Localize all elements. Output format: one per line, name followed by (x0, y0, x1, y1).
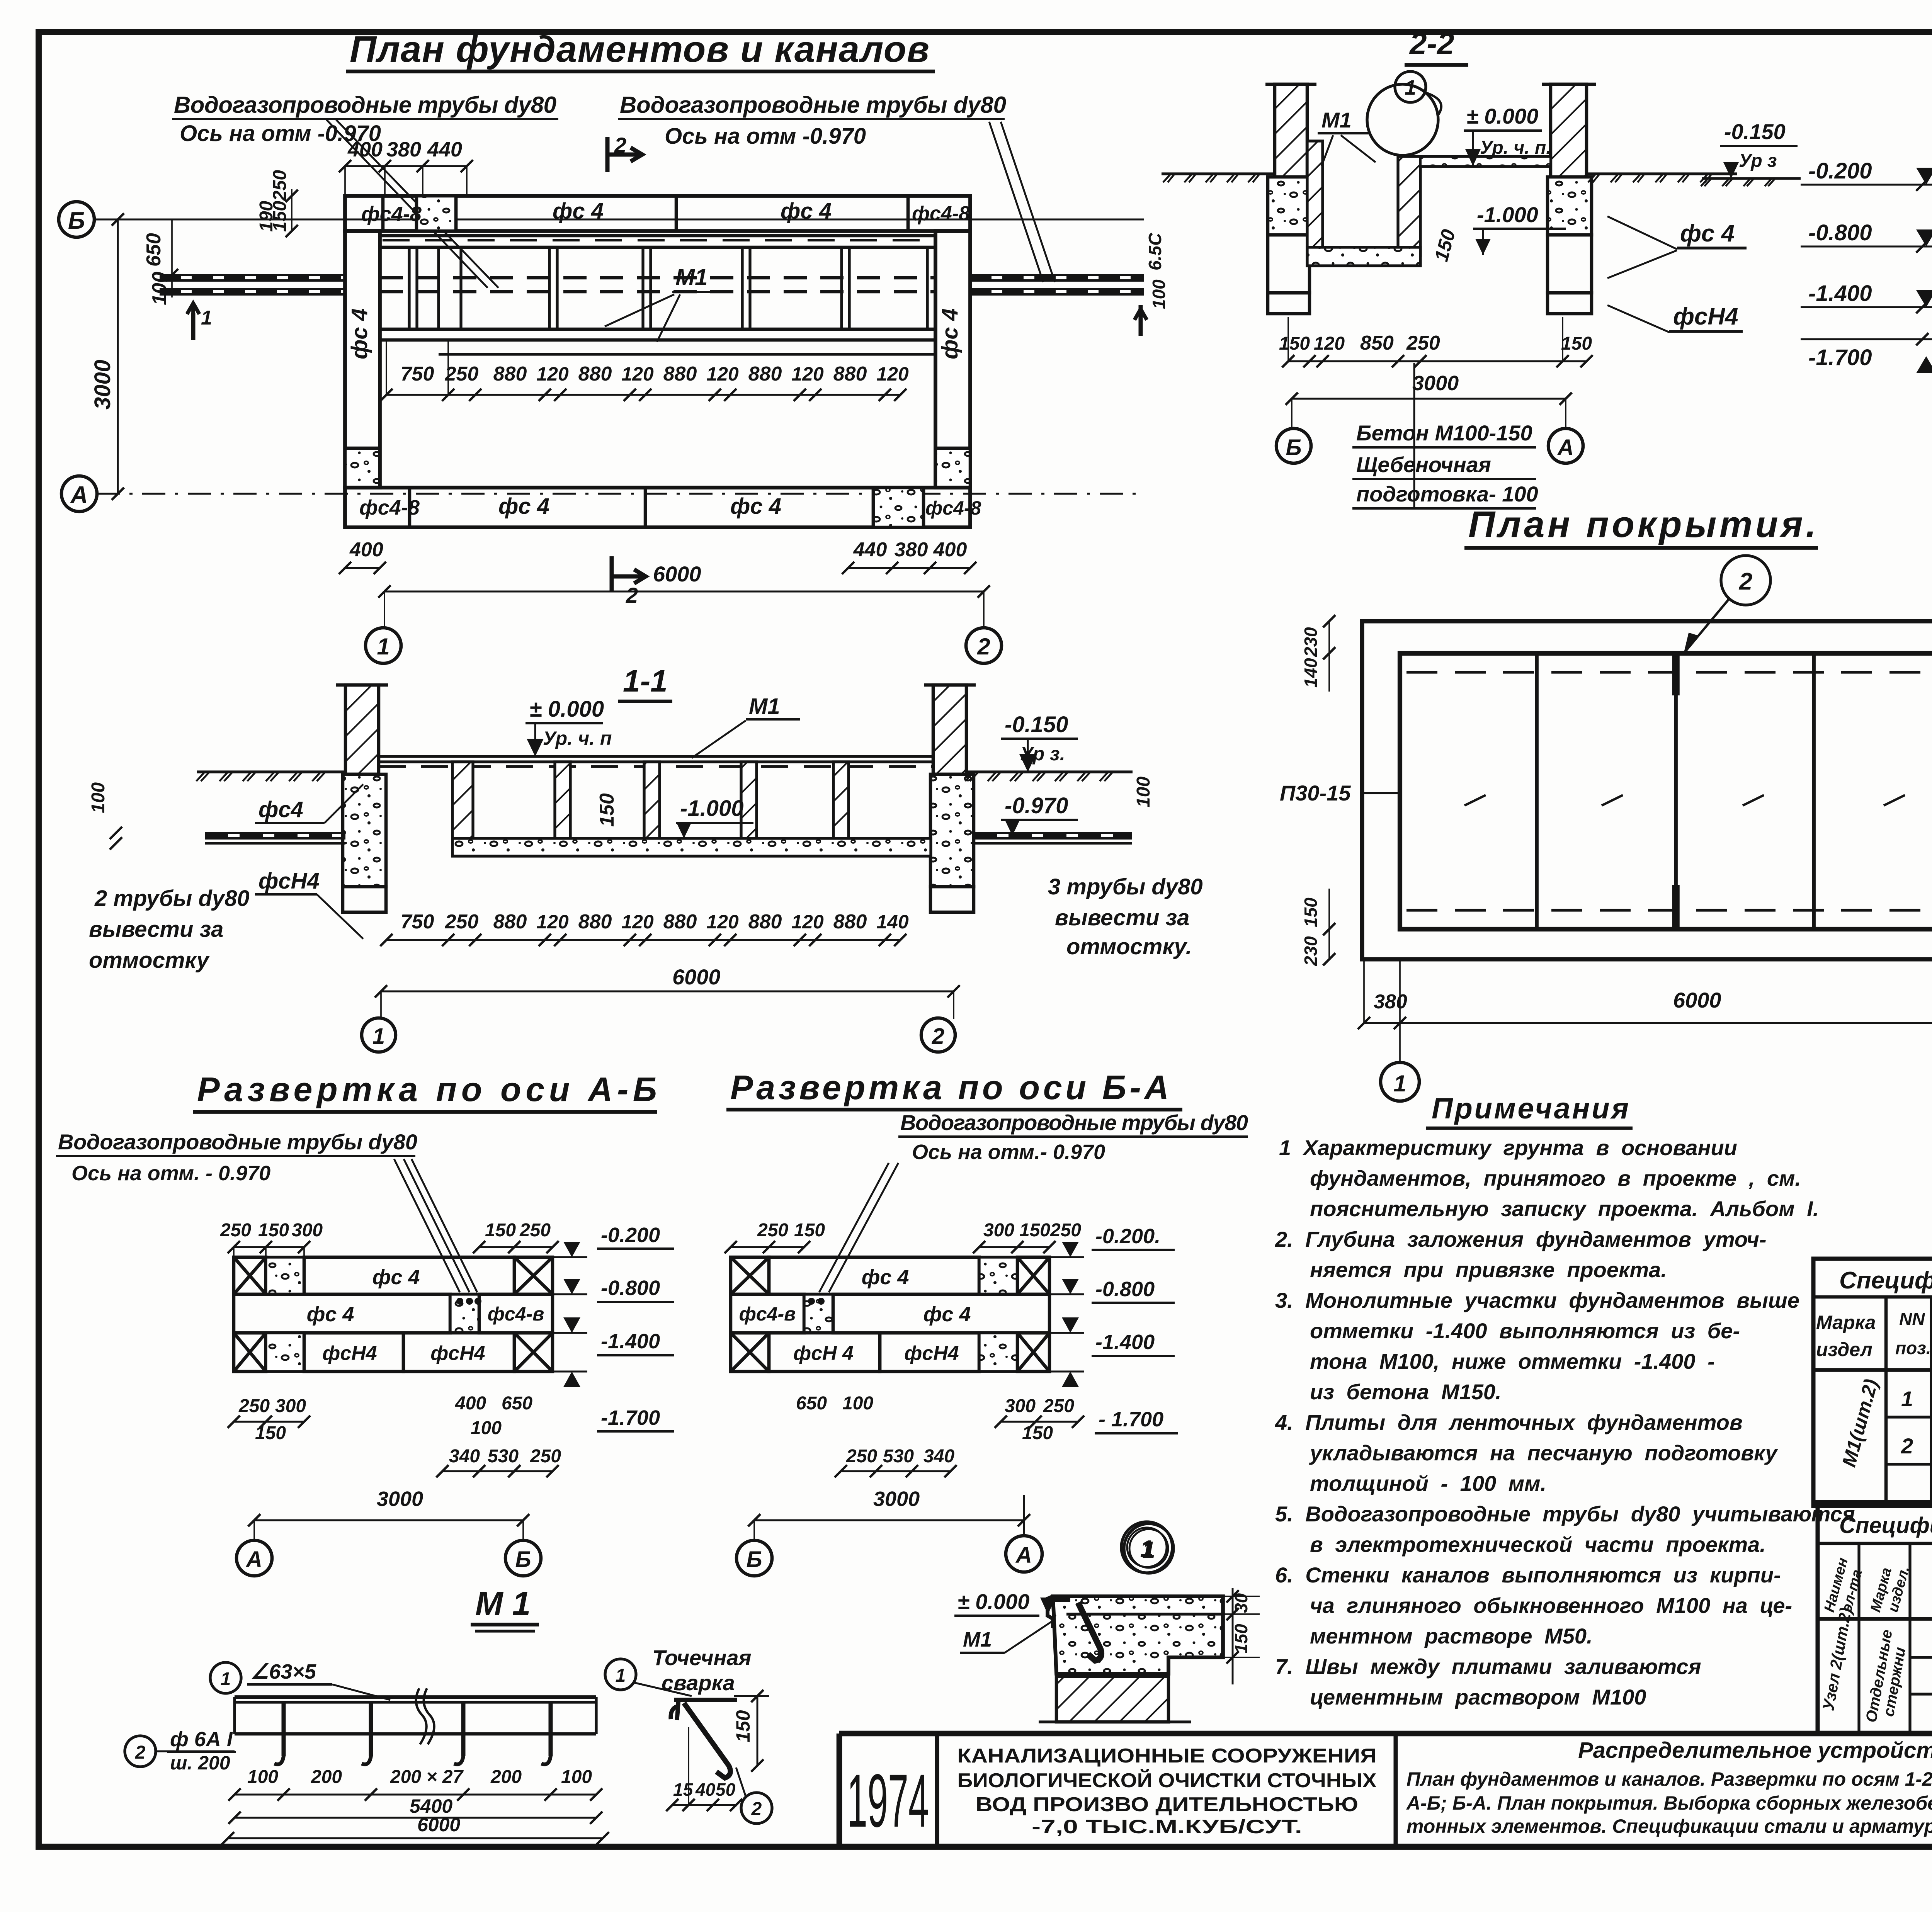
node1: dims 30 150 (1232, 1588, 1234, 1684)
svg-text:100: 100 (88, 782, 109, 813)
svg-text:100: 100 (561, 1767, 592, 1787)
svg-text:50: 50 (716, 1779, 736, 1800)
node1: node circle 1 (1121, 1522, 1172, 1573)
svg-text:-7,0 ТЫС.М.КУБ/СУТ.: -7,0 ТЫС.М.КУБ/СУТ. (1032, 1816, 1302, 1837)
svg-text:150: 150 (1279, 333, 1310, 354)
svg-text:880: 880 (748, 911, 782, 933)
plan: pipes right segment (970, 274, 1144, 276)
svg-text:толщиной - 100 мм.: толщиной - 100 мм. (1310, 1471, 1546, 1496)
table armatura: header bottom (1818, 1617, 1932, 1621)
plan: left wall band (345, 231, 380, 488)
roof plan panel joints (1535, 653, 1539, 929)
svg-text:120: 120 (706, 911, 739, 933)
svg-text:фс 4: фс 4 (862, 1266, 909, 1289)
svg-text:2: 2 (977, 634, 990, 659)
svg-text:фс 4: фс 4 (1680, 220, 1735, 247)
axis circle A (B-A) (1006, 1536, 1042, 1572)
section mark 1 (left) (191, 313, 196, 340)
svg-text:фсН4: фсН4 (1673, 303, 1738, 330)
svg-text:Б: Б (68, 207, 85, 234)
M1 break squiggle (416, 1688, 434, 1744)
svg-text:± 0.000: ± 0.000 (957, 1589, 1029, 1614)
node1: rebar hook (1078, 1603, 1101, 1660)
svg-text:М1: М1 (963, 1628, 992, 1651)
svg-text:750: 750 (401, 363, 434, 385)
roof plan outer rect (1362, 621, 1932, 959)
svg-text:-1.700: -1.700 (1808, 345, 1872, 370)
svg-text:1: 1 (1901, 1387, 1913, 1411)
spot weld dim 150 (757, 1696, 759, 1766)
svg-text:-0.800: -0.800 (601, 1276, 660, 1300)
svg-text:750: 750 (401, 911, 434, 933)
axis circle B (B-A) (736, 1540, 772, 1576)
svg-text:тона М100, ниже отметки: тона М100, ниже отметки -1.400 - (1310, 1349, 1715, 1373)
svg-text:400: 400 (933, 539, 967, 561)
2-2 top slab (1420, 156, 1551, 167)
title block: cell borders (837, 1734, 842, 1847)
svg-text:400: 400 (349, 539, 383, 561)
svg-text:120: 120 (706, 363, 739, 385)
table armatura: outer box (1818, 1502, 1932, 1734)
svg-text:ча глиняного обыкновенного: ча глиняного обыкновенного М100 на це- (1310, 1593, 1792, 1618)
svg-text:650: 650 (796, 1393, 827, 1414)
svg-text:380: 380 (1374, 991, 1407, 1013)
elevation wall B-A (731, 1257, 769, 1294)
svg-text:фсН4: фсН4 (259, 868, 320, 894)
2-2 left pier blocks (1268, 177, 1310, 235)
svg-text:фс4-в: фс4-в (488, 1303, 544, 1325)
svg-text:6000: 6000 (417, 1814, 460, 1836)
svg-text:в электротехнической части: в электротехнической части проекта. (1310, 1532, 1766, 1557)
leaders to wall (A-B) (394, 1159, 460, 1292)
svg-text:Точечная: Точечная (652, 1645, 751, 1670)
svg-text:120: 120 (876, 363, 909, 385)
svg-text:880: 880 (578, 363, 612, 385)
svg-text:3000: 3000 (90, 360, 115, 410)
svg-text:М1: М1 (1321, 108, 1352, 132)
svg-text:Водогазопроводные трубы dy8: Водогазопроводные трубы dy80 (58, 1130, 417, 1154)
1-1 pipes (205, 832, 345, 834)
svg-text:Марка: Марка (1816, 1312, 1876, 1333)
table stal: row lines (1886, 1416, 1932, 1418)
svg-text:Щебеночная: Щебеночная (1356, 452, 1491, 477)
svg-text:880: 880 (833, 911, 867, 933)
svg-text:фс 4: фс 4 (937, 308, 963, 359)
svg-text:140: 140 (876, 911, 909, 933)
svg-text:пояснительную записку проект: пояснительную записку проекта. Альбом I. (1310, 1196, 1819, 1221)
svg-text:П30-15: П30-15 (1280, 781, 1351, 805)
svg-text:400: 400 (455, 1393, 486, 1414)
svg-text:2 трубы dy80: 2 трубы dy80 (94, 886, 250, 911)
svg-text:Водогазопроводные трубы dy80: Водогазопроводные трубы dy80 (174, 92, 556, 118)
svg-text:880: 880 (493, 911, 527, 933)
svg-text:3000: 3000 (873, 1487, 920, 1511)
svg-text:440: 440 (427, 138, 462, 161)
svg-text:± 0.000: ± 0.000 (529, 697, 604, 722)
svg-text:150: 150 (1022, 1423, 1053, 1443)
svg-text:Ур з: Ур з (1739, 151, 1777, 171)
svg-text:6.5С: 6.5С (1145, 233, 1165, 270)
svg-text:6. Стенки каналов выполняю: 6. Стенки каналов выполняются из кирпи- (1275, 1563, 1781, 1587)
svg-text:150: 150 (794, 1220, 825, 1241)
svg-text:250: 250 (270, 170, 290, 201)
svg-text:фс4-в: фс4-в (739, 1303, 796, 1325)
table armatura: header columns (1857, 1543, 1860, 1734)
svg-text:фундаментов, принятого в про: фундаментов, принятого в проекте , см. (1310, 1166, 1801, 1190)
plan: top wall band (345, 196, 970, 231)
2-2 ground left (1162, 172, 1275, 175)
svg-text:40: 40 (695, 1779, 716, 1800)
svg-text:издел: издел (1816, 1339, 1872, 1360)
svg-text:фсН4: фсН4 (430, 1342, 485, 1365)
svg-text:340: 340 (923, 1446, 954, 1467)
svg-text:1: 1 (372, 1024, 385, 1049)
svg-text:150: 150 (258, 1220, 289, 1241)
svg-text:фсН4: фсН4 (322, 1342, 377, 1365)
svg-text:190: 190 (256, 201, 277, 232)
svg-text:6000: 6000 (672, 965, 721, 989)
svg-text:300: 300 (275, 1396, 306, 1416)
plan: right bottom block speckled (935, 448, 970, 488)
svg-text:няется при привязке про: няется при привязке проекта. (1310, 1258, 1667, 1282)
axis circle 1 (1-1) (362, 1018, 396, 1052)
svg-text:150: 150 (255, 1423, 286, 1443)
svg-text:7. Швы между плитами за: 7. Швы между плитами заливаются (1275, 1654, 1701, 1679)
section mark 2 (top) (605, 137, 610, 172)
svg-text:План фундаментов и каналов: План фундаментов и каналов. Развертки по… (1406, 1768, 1932, 1790)
svg-text:Б: Б (1286, 435, 1301, 460)
svg-text:А: А (1557, 435, 1574, 460)
svg-text:5. Водогазопроводные трубы: 5. Водогазопроводные трубы dy80 учитываю… (1275, 1502, 1855, 1526)
svg-text:-1.400: -1.400 (1808, 281, 1872, 306)
svg-text:-1.000: -1.000 (1477, 202, 1538, 227)
rebar dots (B-A) (808, 1298, 815, 1305)
svg-text:120: 120 (621, 363, 654, 385)
svg-text:880: 880 (748, 363, 782, 385)
svg-text:Спецификация стали на одно изд: Спецификация стали на одно изделие. (1839, 1267, 1932, 1294)
1-1 canal top slab lines (379, 755, 933, 758)
node1: brick hatched base (1056, 1676, 1168, 1722)
svg-text:650: 650 (502, 1393, 532, 1414)
leader lines to pipes (right) (989, 122, 1043, 282)
svg-text:530: 530 (488, 1446, 519, 1467)
2-2 right pier hatched (1551, 84, 1587, 177)
svg-text:2: 2 (135, 1742, 146, 1763)
axis line A (97, 493, 1144, 495)
svg-text:100: 100 (1149, 279, 1169, 309)
svg-text:Ур. ч. п: Ур. ч. п (543, 727, 612, 749)
svg-text:ф 6А I: ф 6А I (170, 1728, 233, 1751)
svg-text:фс 4: фс 4 (923, 1303, 971, 1326)
section mark 1 (right) (1139, 305, 1143, 336)
svg-text:300: 300 (292, 1220, 323, 1241)
svg-text:Ось на отм. - 0.970: Ось на отм. - 0.970 (71, 1162, 270, 1185)
svg-text:880: 880 (663, 911, 697, 933)
svg-text:1: 1 (201, 307, 212, 329)
svg-text:100: 100 (247, 1767, 278, 1787)
svg-text:Ось на отм -0.970: Ось на отм -0.970 (665, 124, 866, 149)
spot weld bracket (671, 1700, 737, 1720)
svg-text:120: 120 (536, 363, 569, 385)
svg-text:цементным раствором М100: цементным раствором М100 (1310, 1685, 1646, 1709)
svg-text:120: 120 (791, 911, 824, 933)
axis circle A (2-2) (1548, 428, 1583, 463)
svg-text:200 × 27: 200 × 27 (390, 1767, 464, 1787)
svg-text:1 Характеристику грунта в: 1 Характеристику грунта в основании (1279, 1135, 1737, 1160)
M1 angle bar (235, 1695, 596, 1699)
svg-text:А: А (245, 1547, 262, 1572)
svg-text:650: 650 (143, 233, 165, 267)
elevation wall A-B (234, 1257, 266, 1294)
axis circle A (A-B) (236, 1540, 272, 1576)
svg-text:М1: М1 (749, 694, 780, 719)
node1: left lip angle (1048, 1596, 1053, 1628)
rebar dots (A-B) (456, 1298, 463, 1305)
axis circle B (A-B) (505, 1540, 541, 1576)
svg-text:отметки -1.400 выполняются: отметки -1.400 выполняются из бе- (1310, 1319, 1740, 1343)
svg-text:150: 150 (485, 1220, 516, 1241)
spot weld circle 1 (605, 1659, 636, 1690)
1-1 canal walls hatched (452, 762, 473, 846)
svg-text:250: 250 (1050, 1220, 1081, 1241)
plan: canal partitions (408, 247, 410, 329)
svg-text:∠63×5: ∠63×5 (250, 1660, 316, 1683)
plan: canal top wall lines (380, 234, 935, 238)
svg-text:2: 2 (1901, 1434, 1913, 1458)
svg-text:-0.800: -0.800 (1808, 220, 1872, 245)
2-2 left pier hatched (1275, 84, 1307, 177)
plan: left bottom block speckled (345, 448, 380, 488)
svg-text:фс 4: фс 4 (307, 1303, 354, 1326)
svg-text:3. Монолитные участки фунд: 3. Монолитные участки фундаментов выше (1275, 1288, 1799, 1312)
roof plan label circle 2 (1721, 556, 1770, 605)
svg-text:фс 4: фс 4 (781, 199, 832, 224)
svg-text:фс 4: фс 4 (498, 494, 549, 519)
svg-text:фс4-8: фс4-8 (361, 202, 422, 226)
svg-text:250: 250 (519, 1220, 551, 1241)
svg-text:150: 150 (1231, 1624, 1251, 1654)
svg-text:880: 880 (663, 363, 697, 385)
svg-text:фс 4: фс 4 (372, 1266, 420, 1289)
svg-text:-0.200: -0.200 (1808, 158, 1872, 184)
plan: canal bottom wall lines (380, 328, 935, 331)
svg-text:Ур. ч. п.: Ур. ч. п. (1480, 138, 1551, 158)
svg-text:880: 880 (833, 363, 867, 385)
svg-text:250: 250 (238, 1396, 270, 1416)
svg-text:фс4: фс4 (259, 797, 303, 822)
svg-text:880: 880 (493, 363, 527, 385)
svg-text:-0.800: -0.800 (1095, 1278, 1155, 1301)
svg-text:А: А (70, 482, 88, 508)
svg-text:2: 2 (932, 1024, 944, 1049)
svg-text:150: 150 (1301, 897, 1321, 927)
svg-text:2: 2 (626, 583, 638, 607)
2-2 canal U walls (1307, 141, 1323, 266)
svg-text:150: 150 (596, 793, 618, 827)
svg-text:поз.: поз. (1895, 1338, 1931, 1358)
svg-text:250: 250 (846, 1446, 877, 1467)
plan: canal end partitions (926, 247, 929, 329)
svg-text:3000: 3000 (1412, 372, 1459, 395)
svg-text:200: 200 (490, 1767, 522, 1787)
svg-text:1: 1 (1140, 1536, 1153, 1562)
2-2 node circle 1 (1367, 84, 1438, 155)
axis circle A (61, 476, 97, 512)
section mark 2 (bottom) (610, 556, 614, 591)
axis circle 2 (plan) (966, 628, 1002, 663)
svg-text:300: 300 (983, 1220, 1014, 1241)
svg-text:- 1.700: - 1.700 (1099, 1408, 1163, 1431)
svg-text:-0.150: -0.150 (1724, 119, 1786, 144)
svg-text:подготовка- 100: подготовка- 100 (1356, 482, 1538, 506)
svg-text:А-Б; Б-А. План покрытия. В: А-Б; Б-А. План покрытия. Выборка сборных… (1406, 1792, 1932, 1814)
leader lines to pipes (left) (327, 120, 488, 288)
2-2 ground right (1587, 172, 1737, 175)
svg-text:вывести за: вывести за (1055, 905, 1189, 930)
svg-text:фсН4: фсН4 (904, 1342, 959, 1365)
node circle 1 marker (B-A right) (1124, 1524, 1173, 1573)
svg-text:А: А (1015, 1543, 1032, 1568)
axis circle 1 (plan) (366, 628, 401, 663)
svg-text:-0.150: -0.150 (1005, 712, 1068, 737)
plan: pipes inside (380, 276, 935, 280)
svg-text:1: 1 (1405, 76, 1416, 99)
svg-text:фс 4: фс 4 (347, 308, 372, 359)
node1: axis line to A (1023, 1495, 1025, 1535)
svg-text:фс4-8: фс4-8 (925, 497, 981, 519)
svg-text:250: 250 (530, 1446, 561, 1467)
svg-text:1: 1 (1393, 1071, 1406, 1096)
svg-text:План покрытия.: План покрытия. (1468, 504, 1816, 545)
svg-text:-1.000: -1.000 (680, 796, 743, 821)
2-2 right pier blocks (1548, 177, 1592, 235)
svg-text:1: 1 (377, 634, 389, 659)
svg-text:КАНАЛИЗАЦИОННЫЕ СООРУЖЕНИЯ: КАНАЛИЗАЦИОННЫЕ СООРУЖЕНИЯ (957, 1745, 1377, 1767)
spot weld circle 2 (741, 1793, 772, 1824)
svg-text:БИОЛОГИЧЕСКОЙ ОЧИСТКИ СТОЧНЫХ: БИОЛОГИЧЕСКОЙ ОЧИСТКИ СТОЧНЫХ (957, 1769, 1377, 1792)
svg-text:-1.400: -1.400 (601, 1330, 660, 1353)
svg-text:ментном растворе М50.: ментном растворе М50. (1310, 1624, 1593, 1648)
svg-text:3 трубы dy80: 3 трубы dy80 (1048, 874, 1203, 899)
axis line B (94, 219, 1144, 221)
svg-text:230: 230 (1301, 936, 1321, 966)
svg-text:Б: Б (746, 1547, 762, 1572)
svg-text:880: 880 (578, 911, 612, 933)
M1 circle 2 label (125, 1736, 156, 1767)
svg-text:15: 15 (673, 1779, 694, 1800)
svg-text:± 0.000: ± 0.000 (1466, 104, 1538, 128)
roof plan panel tick marks (1464, 795, 1486, 806)
1-1 right pier (933, 685, 966, 774)
svg-text:250: 250 (445, 363, 479, 385)
roof plan dashed lines (1406, 671, 1932, 673)
svg-text:вывести за: вывести за (89, 917, 223, 942)
svg-text:фс4-8: фс4-8 (359, 496, 420, 519)
svg-text:Водогазопроводные трубы dy80: Водогазопроводные трубы dy80 (900, 1110, 1248, 1135)
svg-text:-0.200.: -0.200. (1095, 1225, 1160, 1248)
1-1 left pier (345, 685, 379, 774)
svg-text:1974: 1974 (847, 1759, 929, 1843)
table stal: header bottom (1813, 1368, 1932, 1372)
roof plan joint thick marks (1672, 653, 1680, 695)
svg-text:2-2: 2-2 (1409, 26, 1454, 61)
svg-text:250: 250 (1406, 332, 1440, 354)
svg-text:1: 1 (221, 1669, 231, 1689)
node1: screed lines (1066, 1613, 1223, 1615)
node1: slab concrete (1053, 1596, 1223, 1674)
title block: top border (839, 1731, 1932, 1737)
svg-text:100: 100 (1133, 777, 1154, 807)
svg-text:фс4-8: фс4-8 (912, 202, 970, 225)
svg-text:380: 380 (386, 138, 421, 161)
M1 circle 1 label (210, 1662, 241, 1693)
plan: right wall band (935, 231, 970, 488)
svg-text:150: 150 (1561, 333, 1592, 354)
svg-text:200: 200 (311, 1767, 342, 1787)
svg-text:140: 140 (1301, 658, 1321, 688)
svg-text:М 1: М 1 (475, 1585, 531, 1622)
leaders to wall (B-A) (819, 1163, 889, 1292)
table stal: outer box (1813, 1259, 1932, 1506)
svg-text:Ось на отм.- 0.970: Ось на отм.- 0.970 (912, 1140, 1105, 1164)
svg-text:-1.400: -1.400 (1095, 1331, 1155, 1354)
svg-text:250: 250 (445, 911, 479, 933)
svg-text:2. Глубина заложения фундаме: 2. Глубина заложения фундаментов уточ- (1275, 1227, 1767, 1251)
svg-text:300: 300 (1005, 1396, 1036, 1416)
svg-text:из бетона М150.: из бетона М150. (1310, 1380, 1502, 1404)
svg-text:фсН 4: фсН 4 (793, 1342, 854, 1365)
svg-text:фс 4: фс 4 (730, 494, 781, 519)
svg-text:Б: Б (515, 1547, 531, 1572)
svg-text:6000: 6000 (653, 562, 701, 586)
svg-text:План фундаментов и каналов: План фундаментов и каналов (350, 29, 929, 70)
svg-text:1: 1 (616, 1666, 626, 1686)
svg-text:отмостку: отмостку (89, 948, 210, 973)
svg-text:120: 120 (1314, 333, 1345, 354)
svg-text:120: 120 (536, 911, 569, 933)
svg-text:тонных элементов. Специфика: тонных элементов. Спецификации стали и а… (1406, 1815, 1932, 1837)
svg-text:250: 250 (1043, 1396, 1074, 1416)
table armatura: row lines (1910, 1656, 1932, 1659)
axis circle B (2-2) (1276, 428, 1311, 463)
plan: pipes left segment (160, 274, 345, 276)
svg-text:укладываются на песчаную: укладываются на песчаную подготовку (1309, 1441, 1778, 1465)
svg-text:ВОД ПРОИЗВО ДИТЕЛЬНОСТЬЮ: ВОД ПРОИЗВО ДИТЕЛЬНОСТЬЮ (976, 1793, 1358, 1816)
roof plan inner panels rect (1400, 653, 1932, 929)
axis circle B (59, 202, 94, 237)
svg-text:400: 400 (347, 138, 383, 161)
svg-text:Распределительное устройс: Распределительное устройство. (1578, 1738, 1932, 1763)
svg-text:230: 230 (1301, 627, 1321, 657)
svg-text:1-1: 1-1 (623, 664, 668, 698)
1-1 ground line left (197, 770, 345, 773)
svg-text:120: 120 (621, 911, 654, 933)
svg-text:340: 340 (449, 1446, 480, 1467)
svg-text:250: 250 (220, 1220, 251, 1241)
svg-text:3000: 3000 (377, 1487, 423, 1511)
svg-text:Примечания: Примечания (1432, 1092, 1629, 1125)
axis circle 1 (roof) (1381, 1062, 1419, 1101)
1-1 bottom slab (452, 838, 931, 856)
svg-text:-0.970: -0.970 (1005, 793, 1068, 818)
svg-text:отмостку.: отмостку. (1066, 934, 1192, 959)
svg-text:2: 2 (614, 133, 626, 157)
svg-text:6000: 6000 (1673, 988, 1721, 1012)
svg-text:380: 380 (895, 539, 928, 561)
svg-text:120: 120 (791, 363, 824, 385)
svg-text:850: 850 (1360, 332, 1394, 354)
svg-text:250: 250 (757, 1220, 788, 1241)
